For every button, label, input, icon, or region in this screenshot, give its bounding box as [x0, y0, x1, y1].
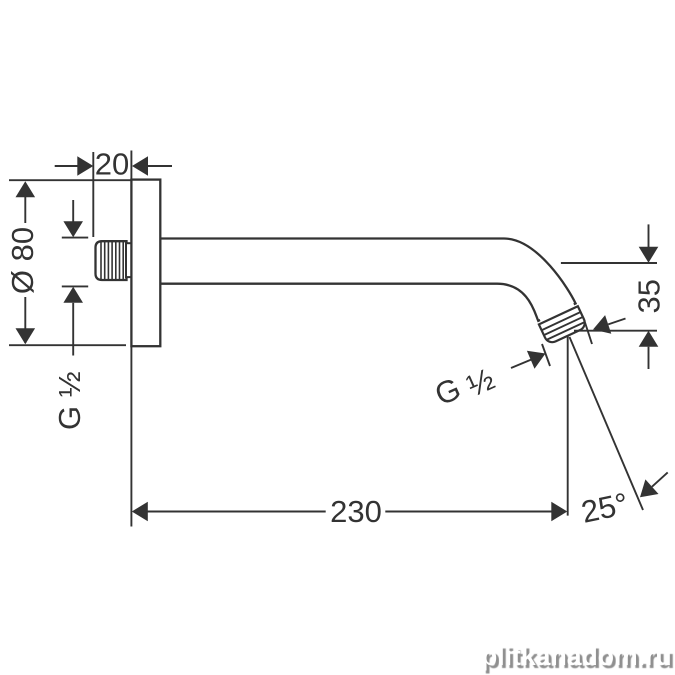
dimension 20 lines — [55, 165, 78, 167]
25 degree pointer — [652, 472, 668, 486]
extension line: 20 left — [92, 152, 94, 237]
G1/2 wall pointer up arrow — [63, 287, 83, 303]
svg-text:20: 20 — [95, 147, 129, 182]
35 dimension line and arrows — [648, 224, 650, 247]
G1/2 wall pointer down arrow — [72, 200, 74, 223]
dimension dia80 line — [24, 183, 26, 223]
svg-text:230: 230 — [330, 494, 382, 529]
G1/2 wall pointer ticks — [62, 237, 88, 239]
G1/2 outlet pointer — [511, 359, 532, 368]
extension line: dia80 top — [9, 179, 131, 181]
dimension 20 arrows — [77, 156, 93, 176]
outlet face pointer — [608, 319, 625, 325]
svg-text:35: 35 — [632, 279, 667, 313]
outlet thread — [536, 301, 587, 345]
230 dimension line — [148, 511, 326, 513]
35 dimension ticks — [561, 262, 657, 264]
svg-text:G ½: G ½ — [52, 371, 87, 430]
dimension dia80 arrows — [16, 181, 36, 197]
svg-text:plitkanadom.ru: plitkanadom.ru — [481, 641, 672, 671]
shower arm tube — [160, 239, 575, 321]
wall plate — [131, 180, 160, 347]
vertical extension line from outlet — [567, 336, 569, 516]
outlet axis extension line — [570, 337, 644, 510]
extension line: plate left edge up and down (20 right ext / 230 left ext) — [130, 151, 132, 180]
extension line: dia80 bottom — [9, 344, 126, 346]
svg-text:Ø 80: Ø 80 — [5, 227, 40, 294]
wall thread nipple — [96, 241, 132, 280]
